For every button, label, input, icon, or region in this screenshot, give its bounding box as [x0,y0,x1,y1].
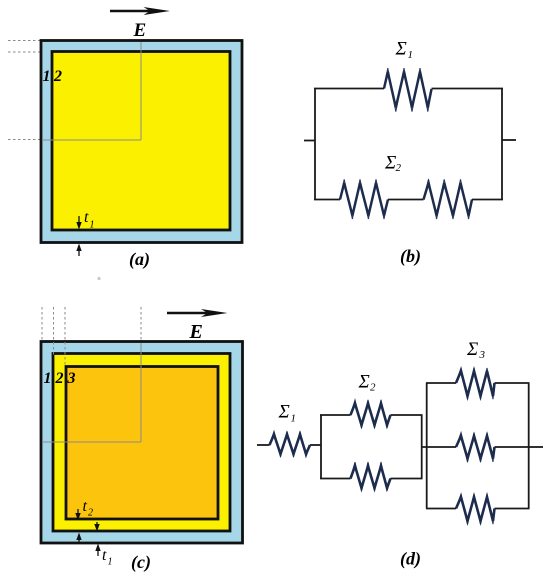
svg-text:(b): (b) [400,246,421,267]
wire bottom segment 2 (b) [388,199,424,201]
middle plate square (c) yellow layer 2 [53,354,230,532]
svg-text:2: 2 [370,382,376,394]
resistor Sigma3 middle (d) [456,433,495,462]
Sigma3 top wire left (d) [426,382,456,384]
circuit (d) wires [257,383,543,509]
resistor Sigma2 bottom (d) [351,462,391,491]
Sigma2 bottom wire right (d) [391,478,423,480]
Sigma3 bottom wire right (d) [495,508,530,510]
svg-text:t: t [83,498,88,515]
svg-text:3: 3 [479,349,486,361]
resistor Sigma1 (b) [384,68,432,112]
t1 up arrow below (c) [95,544,100,557]
wire Sigma1 to Sigma2 box (d) [310,444,321,446]
svg-text:Σ: Σ [466,339,478,360]
wire bottom segment 3 (b) [472,199,503,201]
field arrow E (c) [167,309,228,317]
resistor Sigma3 top (d) [456,368,495,399]
svg-text:t: t [102,547,107,564]
svg-text:2: 2 [88,508,93,519]
resistor Sigma2 right (b) [424,179,473,219]
left terminal lead (d) [257,444,270,446]
wire left vertical (b) [314,89,316,200]
Sigma3 box right vertical (d) [528,383,530,509]
svg-text:(d): (d) [400,549,421,570]
wire top left segment (b) [314,88,384,90]
svg-text:1: 1 [43,68,51,85]
Sigma2 top wire right (d) [391,414,423,416]
Sigma3 middle wire right (d) [495,446,529,448]
Sigma2 box left vertical (d) [320,415,322,479]
wire Sigma2 to Sigma3 box (d) [422,446,456,448]
circuit (b) wires [304,89,516,200]
svg-text:E: E [133,20,147,41]
svg-text:(a): (a) [129,249,150,270]
Sigma3 bottom wire left (d) [426,508,456,510]
svg-text:(c): (c) [131,552,151,573]
svg-text:2: 2 [396,162,402,174]
Sigma2 bottom wire left (d) [320,478,351,480]
Sigma3 top wire right (d) [495,382,530,384]
resistor Sigma2 top (d) [351,400,391,428]
outer plate square (a) blue layer 1 [41,41,242,243]
thin corner reference lines (c) [42,343,141,442]
dashed leader verticals (c) [42,307,141,367]
svg-text:1: 1 [44,370,52,387]
Sigma3 box left vertical (d) [426,383,428,509]
t2 down arrow (c) [75,509,80,521]
stray dot artifact [97,277,100,280]
svg-text:1: 1 [291,413,297,425]
thin corner reference lines (a) [42,42,141,140]
yellow layer down arrow (c) [94,522,99,532]
svg-text:1: 1 [408,49,414,61]
resistor Sigma1 (d) [270,431,311,456]
outer plate square (c) blue layer 1 [41,342,243,544]
wire top right segment (b) [432,88,504,90]
svg-text:Σ: Σ [358,371,370,392]
svg-text:2: 2 [53,68,62,85]
blue layer up arrow (c) [76,533,81,543]
svg-text:Σ: Σ [384,153,396,174]
resistor Sigma3 bottom (d) [456,494,495,524]
svg-text:Σ: Σ [278,401,290,422]
inner plate square (c) orange layer 3 [66,367,218,520]
wire right vertical (b) [501,89,503,200]
dashed leader lines (a) [8,41,50,140]
svg-text:t: t [84,209,89,226]
right terminal lead (d) [529,446,543,448]
wire bottom segment 1 (b) [314,199,340,201]
Sigma2 top wire left (d) [320,414,351,416]
thickness up arrow below (a) [76,244,81,257]
svg-text:1: 1 [108,557,113,568]
inner plate square (a) yellow layer 2 [52,52,230,231]
resistor Sigma2 left (b) [340,179,388,219]
svg-text:1: 1 [90,220,95,231]
svg-text:2: 2 [55,370,64,387]
svg-text:3: 3 [67,370,76,387]
t1 down arrow (a) [76,216,81,230]
left terminal lead (b) [304,140,315,142]
field arrow E (a) [110,7,170,15]
right terminal lead (b) [502,139,516,141]
svg-text:E: E [189,321,203,343]
Sigma2 box right vertical (d) [421,415,423,479]
svg-text:Σ: Σ [395,39,407,60]
